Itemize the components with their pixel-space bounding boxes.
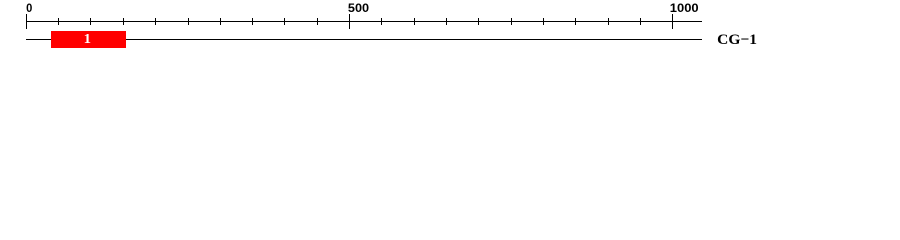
ruler label 500 <box>348 1 370 15</box>
exon 1 red box <box>51 31 126 48</box>
exon number 1 <box>84 32 91 47</box>
svg-text:CG−1: CG−1 <box>717 32 757 48</box>
ruler axis line <box>26 21 702 22</box>
ruler major tick 1000 <box>672 14 673 29</box>
ruler major tick 500 <box>349 14 350 29</box>
ruler major tick 0 <box>26 14 27 29</box>
svg-text:1000: 1000 <box>670 1 699 15</box>
svg-text:0: 0 <box>26 1 32 15</box>
ruler minor ticks <box>58 18 641 25</box>
ruler label 0 <box>26 1 32 15</box>
gene track line <box>26 39 702 40</box>
svg-text:1: 1 <box>84 32 91 47</box>
gene name CG-1 <box>717 32 757 48</box>
ruler label 1000 <box>670 1 699 15</box>
background <box>0 0 900 58</box>
svg-text:500: 500 <box>348 1 370 15</box>
